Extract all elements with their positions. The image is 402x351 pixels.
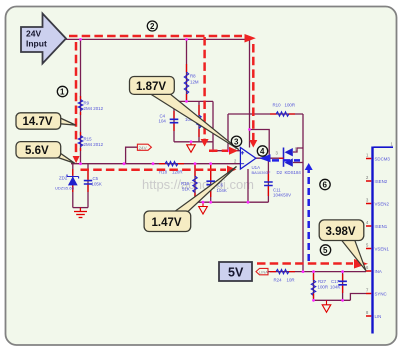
wire 5.6V horizontal rail to pin2 — [71, 163, 240, 165]
svg-text:1.47V: 1.47V — [152, 217, 182, 229]
ground (op-amp rail) — [199, 202, 208, 214]
red arrow down path1 — [73, 156, 80, 163]
resistor R8 — [184, 64, 199, 100]
wire R27/C17 bottom rail — [314, 299, 351, 301]
svg-text:2M4 2012: 2M4 2012 — [84, 142, 104, 147]
svg-text:5V: 5V — [228, 266, 244, 280]
resistor R27 — [311, 274, 328, 299]
wire box tap to pin3 — [212, 101, 214, 150]
resistor R18 — [159, 162, 184, 175]
wire D2 pin2 — [293, 162, 303, 164]
wire R8 leg — [186, 39, 188, 101]
node number 6 — [320, 179, 330, 189]
callout 1.87V — [130, 77, 239, 150]
capacitor C4 — [159, 111, 179, 131]
svg-text:ISEN1: ISEN1 — [375, 224, 388, 229]
connector J1 — [366, 142, 394, 334]
svg-text:VSEN2: VSEN2 — [375, 202, 390, 207]
svg-text:LIN: LIN — [375, 314, 382, 319]
svg-text:2M4 2012: 2M4 2012 — [84, 106, 104, 111]
red dashed path 2 vertical — [252, 44, 255, 141]
wire R11 leg — [198, 101, 200, 141]
svg-text:R27: R27 — [318, 279, 327, 284]
wire C17 branch — [342, 272, 344, 301]
blue arrow up — [305, 163, 313, 170]
svg-text:BA10393F: BA10393F — [252, 170, 271, 175]
resistor R15 — [78, 132, 103, 151]
blue dashed path horizontal — [272, 159, 300, 162]
resistor R10 — [270, 103, 295, 117]
callout 3.98V — [319, 220, 366, 271]
wire C11 branch — [267, 158, 269, 202]
svg-text:5.6V: 5.6V — [25, 145, 49, 157]
svg-text:C17: C17 — [331, 279, 340, 284]
red arrow down path3 — [201, 139, 209, 147]
24V input block arrow — [21, 14, 66, 64]
ground (C4 box) — [187, 142, 196, 153]
red dashed path 2 top — [69, 35, 242, 38]
svg-text:24V: 24V — [26, 29, 41, 39]
svg-text:12M: 12M — [190, 80, 199, 85]
svg-text:105K: 105K — [92, 182, 102, 187]
capacitor C17 — [330, 274, 347, 293]
node number 5 — [320, 245, 330, 255]
svg-text:1.87V: 1.87V — [136, 81, 166, 93]
svg-text:C5: C5 — [93, 176, 99, 181]
5V label box — [219, 262, 252, 281]
blue arrow left to op-amp output — [259, 154, 271, 162]
dual diode D2 — [276, 147, 302, 176]
svg-text:Input: Input — [26, 39, 47, 49]
wire op-amp output — [256, 157, 284, 159]
svg-text:3: 3 — [234, 137, 239, 146]
wire C4 box bottom — [174, 141, 213, 143]
svg-text:100R: 100R — [318, 285, 329, 290]
svg-text:LINA: LINA — [259, 270, 268, 275]
wire D2 pin1 — [293, 148, 303, 152]
svg-text:14.7V: 14.7V — [23, 116, 53, 128]
red dashed path3 to pin3 — [209, 150, 228, 153]
ground IEC (ZD2/C5) — [74, 208, 87, 218]
svg-text:ISEN2: ISEN2 — [375, 179, 388, 184]
red arrow right path2 — [245, 34, 256, 43]
red arrow right pin3 — [229, 147, 238, 155]
svg-text:SDCM3: SDCM3 — [375, 157, 391, 162]
wire 5V to INA pin — [268, 271, 366, 273]
wire ground rail under op-amp — [195, 201, 268, 203]
svg-text:100R: 100R — [285, 103, 296, 108]
net label 24V — [137, 144, 151, 150]
svg-text:R15: R15 — [84, 137, 93, 142]
wire R10 left down to pin3 — [227, 114, 229, 151]
svg-text:R10: R10 — [273, 103, 282, 108]
svg-text:104K: 104K — [217, 188, 227, 193]
resistor R24 — [270, 269, 295, 282]
node number 2 — [147, 21, 157, 31]
wire long vertical R10/D2 to 5V rail — [302, 114, 304, 272]
svg-text:ZD2: ZD2 — [59, 176, 68, 181]
svg-text:R24: R24 — [274, 278, 283, 283]
wire C4 box top — [174, 100, 213, 102]
red arrow down path2 — [249, 140, 257, 148]
svg-text:D2: D2 — [277, 170, 283, 175]
svg-text:24V: 24V — [139, 145, 148, 150]
node number 3 — [231, 136, 241, 146]
svg-text:VSEN1: VSEN1 — [375, 247, 390, 252]
svg-text:R8: R8 — [190, 74, 196, 79]
svg-text:5: 5 — [323, 246, 328, 255]
callout 14.7V — [16, 113, 76, 129]
ground (R27/C17) — [322, 300, 331, 312]
wire to SYNC pin — [350, 294, 366, 301]
svg-text:104K: 104K — [330, 285, 340, 290]
resistor R19 — [181, 165, 197, 199]
svg-text:3.98V: 3.98V — [326, 226, 356, 238]
wire C4 leg — [173, 101, 175, 141]
svg-text:104K50V: 104K50V — [273, 193, 291, 198]
resistor R11 — [185, 105, 201, 137]
wire R9/R15 divider vertical — [80, 39, 82, 163]
wire supply jog to output — [250, 130, 270, 159]
resistor R9 — [78, 96, 103, 115]
red dashed path 5V to INA — [257, 262, 353, 265]
wire R27 branch — [313, 272, 315, 301]
zener diode ZD2 — [55, 169, 79, 192]
wire ZD2 branch — [72, 164, 74, 208]
wire R10 feedback horizontal — [228, 113, 303, 115]
svg-text:SYNC: SYNC — [375, 292, 387, 297]
svg-text:KDS184: KDS184 — [285, 170, 302, 175]
red dashed path 3 vertical — [203, 37, 206, 140]
capacitor C6 — [206, 165, 226, 197]
wire pin3 horizontal — [213, 150, 240, 152]
node number 4 — [257, 146, 267, 156]
svg-text:INA: INA — [375, 269, 382, 274]
wire R19 branch — [194, 164, 196, 203]
svg-text:1: 1 — [60, 88, 65, 97]
wire C6 branch — [210, 164, 212, 203]
wire top 24V rail — [66, 38, 250, 40]
wire supply vertical to op-amp top — [249, 39, 251, 147]
callout 5.6V — [16, 142, 75, 164]
svg-text:10R: 10R — [287, 278, 295, 283]
svg-text:104: 104 — [159, 119, 167, 124]
svg-text:6: 6 — [323, 181, 328, 190]
red arrow right pin2 — [227, 166, 237, 174]
svg-text:51K: 51K — [182, 187, 190, 192]
net label LINA — [256, 268, 268, 274]
op-amp U1A — [234, 146, 271, 175]
callout 1.47V — [144, 167, 236, 232]
svg-text:R9: R9 — [84, 101, 90, 106]
capacitor C5 — [84, 170, 102, 192]
svg-text:2: 2 — [150, 22, 155, 31]
wire ZD2/C5 bottom — [73, 207, 88, 209]
blue dashed path vertical — [307, 169, 310, 261]
node number 1 — [57, 86, 67, 96]
svg-text:UDZS5.6B: UDZS5.6B — [55, 186, 74, 191]
capacitor C11 — [264, 171, 291, 198]
svg-text:R19: R19 — [181, 181, 190, 186]
red arrow right INA — [354, 259, 368, 269]
wire 24V net label link — [126, 147, 138, 164]
svg-text:https://acngzdi.com: https://acngzdi.com — [142, 177, 254, 192]
red dashed path 1 vertical — [75, 42, 78, 156]
wire C5 branch — [87, 164, 89, 208]
svg-text:4: 4 — [260, 147, 265, 156]
red dashed path 4 to pin2 — [81, 169, 227, 172]
wire op-amp V- down — [247, 169, 249, 202]
